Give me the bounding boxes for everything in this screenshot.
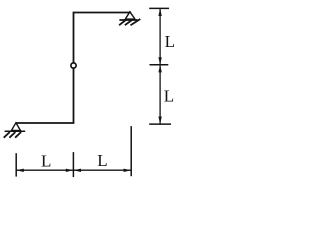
bottom dimension line right segment xyxy=(73,169,131,171)
right dimension extension tick top xyxy=(149,7,169,9)
bottom dimension line left segment xyxy=(16,169,73,171)
internal hinge xyxy=(71,63,76,68)
svg-text:L: L xyxy=(97,151,107,170)
right dimension arrowheads xyxy=(158,8,161,124)
svg-text:L: L xyxy=(41,152,51,171)
pin support B (top right) triangle xyxy=(125,12,135,19)
bottom dimension extension tick right xyxy=(130,126,132,176)
right dimension extension tick bottom xyxy=(149,123,171,125)
right dimension line upper segment xyxy=(159,8,161,64)
bottom dimension arrowheads xyxy=(16,169,131,172)
pin support A (bottom left) triangle xyxy=(11,123,20,131)
pin support B hatching xyxy=(119,19,140,25)
svg-text:L: L xyxy=(164,86,174,105)
right dimension line lower segment xyxy=(159,65,161,124)
svg-text:L: L xyxy=(165,32,175,51)
frame members (top beam, column, bottom beam) xyxy=(16,13,131,124)
bottom dimension extension tick left xyxy=(15,153,17,176)
pin support A hatching xyxy=(4,132,21,138)
pin support B ground line xyxy=(119,19,137,21)
pin support A ground line xyxy=(5,130,26,132)
bottom dimension extension tick middle xyxy=(72,152,74,177)
right dimension extension tick middle xyxy=(150,64,169,66)
